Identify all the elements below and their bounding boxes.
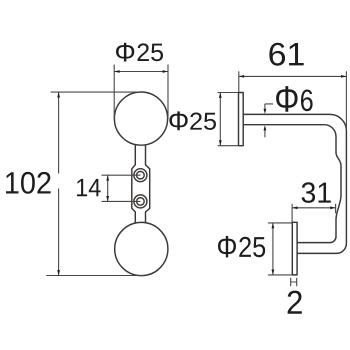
dimension 61: right arrow [341,75,346,78]
dimension 14: dimension line [107,175,109,201]
dimension 102: dimension line [58,92,60,275]
dimension 102: extension lines [46,92,143,275]
front phi25 label [116,43,163,62]
dimension phi25 upper side view: bottom arrow [219,140,222,145]
dimension 102: top arrow [57,92,60,97]
dimension phi25 upper side view: extension lines [218,93,238,146]
stem and mounting plate outline left side [132,145,136,224]
top ball knob (front view) [114,92,167,145]
top screw hole inner [137,171,145,179]
dimension phi25 top: extension lines [114,65,168,120]
dimension 14: extension lines [102,175,141,201]
61 label [269,43,303,66]
14 label [77,179,101,196]
dimension phi25 top: right arrow [163,70,168,73]
top wall flange plate (side view) [239,93,244,146]
dimension 31: dimension line [292,207,336,209]
hook rod inner contour with stepped jog (side view) [244,125,342,243]
dimension phi25 upper side view: dimension line [219,93,221,146]
dimension 61: dimension line [239,75,347,77]
dimension phi25 top: left arrow [114,70,119,73]
top screw hole outer [134,169,147,182]
102 label [6,172,51,194]
dimension phi25 lower side view: dimension line [272,223,274,275]
dimension 14: top arrow [106,175,109,180]
dimension 14: bottom arrow [106,196,109,201]
dimension phi25 upper side view: top arrow [219,93,222,98]
bottom wall flange plate (side view) [292,222,297,275]
dimension 102: bottom arrow [57,270,60,275]
dimension phi25 lower side view: extension lines [268,223,292,275]
dimension 61: left arrow [239,75,244,78]
2 label [288,291,302,314]
hook rod outer contour (side view) [244,114,347,253]
bottom screw hole inner [137,198,145,206]
dimension phi25 lower side view: top arrow [272,223,275,228]
bottom screw hole outer [134,195,147,208]
dimension phi6: upper leader and arrow [265,104,273,110]
dimension phi25 lower side view: bottom arrow [272,270,275,275]
dimension 61: extension lines [239,71,347,130]
dimension 31: left arrow [292,206,297,209]
dimension 31: right arrow [330,206,335,209]
dimension phi25 top: dimension line [114,71,168,73]
bottom ball knob (front view) [115,222,168,275]
stem and mounting plate outline right side [146,145,150,224]
upper side phi25 label [169,111,216,130]
dimension 31: extension lines [292,204,336,222]
31 label [302,182,331,203]
phi6 label [276,86,313,112]
lower side phi25 label [218,236,265,257]
dimension phi6: lower arrow and tail [264,130,266,137]
dimension 2: extension ticks and bar [291,278,297,286]
